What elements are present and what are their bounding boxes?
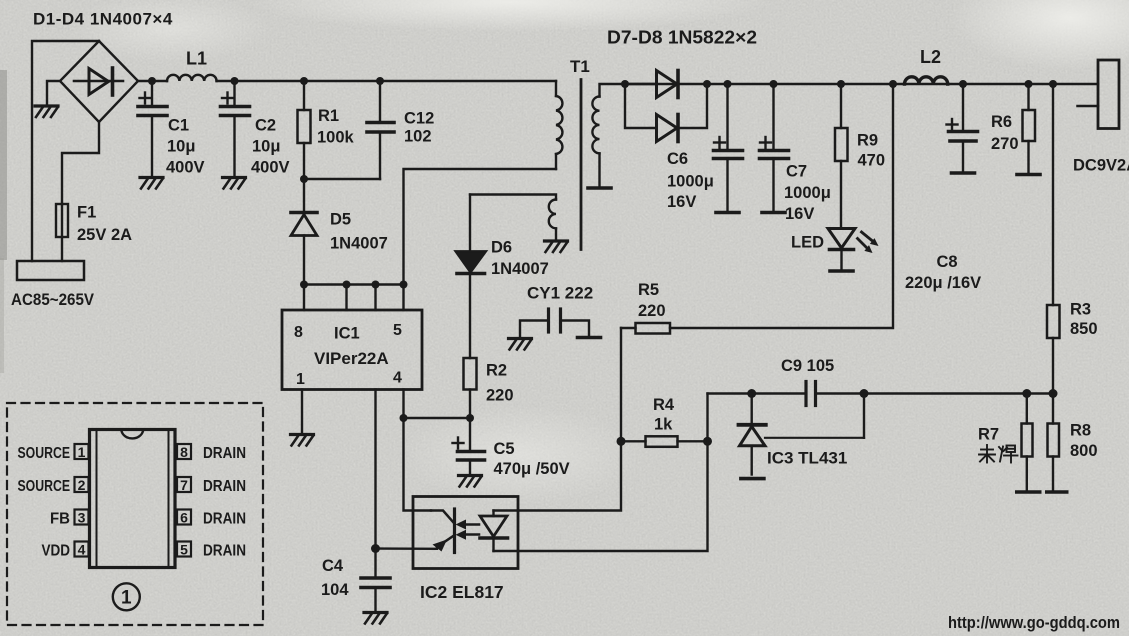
resistor R3 xyxy=(1047,305,1060,394)
node D7/D8 cathodes xyxy=(703,80,711,88)
label C4 104 xyxy=(321,557,349,599)
AC input plug xyxy=(17,261,84,280)
svg-text:C2: C2 xyxy=(255,117,276,135)
svg-text:400V: 400V xyxy=(166,159,205,177)
node drain row pin7 xyxy=(343,281,351,311)
wire IC1 pin1 to ground xyxy=(301,390,303,433)
label R4 1k xyxy=(653,396,675,434)
svg-text:1k: 1k xyxy=(654,416,673,434)
diode D8 xyxy=(625,84,707,142)
node FB/C4/opto emitter xyxy=(371,544,437,553)
svg-text:1N4007: 1N4007 xyxy=(491,260,549,278)
opto-coupler IC2 EL817 box xyxy=(413,497,518,569)
svg-text:C9 105: C9 105 xyxy=(781,357,834,375)
pinout pin 2 box xyxy=(75,477,89,493)
LED return bar xyxy=(830,270,853,272)
capacitor CY1 xyxy=(520,309,589,337)
R6 return bar xyxy=(1017,173,1040,175)
node R3 top xyxy=(1049,80,1057,88)
IC3 anode return bar xyxy=(741,477,764,479)
wire drain node row xyxy=(304,283,404,285)
svg-text:CY1 222: CY1 222 xyxy=(527,284,593,303)
fuse F1 xyxy=(56,204,68,261)
inductor L2 xyxy=(905,77,948,84)
svg-text:7: 7 xyxy=(180,477,188,493)
resistor R5 xyxy=(621,323,670,334)
R8 return bar xyxy=(1045,490,1069,494)
svg-text:DRAIN: DRAIN xyxy=(203,510,246,527)
svg-text:SOURCE: SOURCE xyxy=(18,478,71,495)
transformer T1 core xyxy=(580,80,583,250)
diode D7 xyxy=(625,71,678,98)
CY1 right return bar xyxy=(578,336,601,338)
opto IC2 led xyxy=(480,511,508,552)
C6 return bar xyxy=(716,211,739,213)
pinout inset dashed box xyxy=(7,403,263,625)
svg-text:25V 2A: 25V 2A xyxy=(77,226,132,244)
node C12 top xyxy=(376,77,384,85)
wire L1 to R1/C12 rail xyxy=(217,80,557,82)
resistor R6 xyxy=(1023,84,1036,174)
secondary return bar xyxy=(588,187,611,189)
wire R4 node up to IC3 row xyxy=(706,394,708,442)
transformer T1 aux winding xyxy=(470,195,556,240)
svg-text:AC85~265V: AC85~265V xyxy=(11,290,95,309)
opto IC2 light arrows xyxy=(456,520,480,540)
node R7 top xyxy=(1022,389,1031,398)
resistor R9 xyxy=(835,84,848,228)
svg-text:1N4007: 1N4007 xyxy=(330,235,388,253)
label R9 470 xyxy=(857,132,885,170)
pinout pin 3 box xyxy=(75,509,89,525)
svg-text:1: 1 xyxy=(78,444,86,460)
node C2 xyxy=(231,77,239,85)
svg-text:10μ: 10μ xyxy=(252,138,280,156)
svg-text:1: 1 xyxy=(296,371,305,388)
wire opto led cathode inside xyxy=(494,550,519,552)
svg-text:102: 102 xyxy=(404,128,432,146)
capacitor C4 xyxy=(361,549,390,611)
resistor R4 xyxy=(621,436,708,447)
svg-text:C7: C7 xyxy=(786,163,807,181)
svg-text:R8: R8 xyxy=(1070,422,1091,440)
svg-text:F1: F1 xyxy=(77,204,96,222)
label C6 1000u 16V xyxy=(667,150,714,211)
svg-text:R4: R4 xyxy=(653,396,675,414)
svg-text:1000μ: 1000μ xyxy=(667,173,714,191)
node R9 top xyxy=(837,80,845,88)
svg-text:220: 220 xyxy=(486,387,514,405)
svg-text:C4: C4 xyxy=(322,557,344,575)
wire R5 left down to opto anode xyxy=(518,328,621,511)
resistor R8 xyxy=(1048,394,1060,492)
svg-text:3: 3 xyxy=(78,509,86,525)
svg-text:4: 4 xyxy=(393,370,402,387)
svg-text:D1-D4 1N4007×4: D1-D4 1N4007×4 xyxy=(33,10,173,29)
pinout IC body xyxy=(90,430,176,568)
node pin4/R2 wire xyxy=(400,414,471,422)
node R6 top xyxy=(1025,80,1033,88)
svg-text:100k: 100k xyxy=(317,129,355,147)
ground IC1 pin1 xyxy=(291,435,314,446)
svg-text:T1: T1 xyxy=(570,57,590,76)
ground C1 xyxy=(140,178,163,189)
svg-text:D6: D6 xyxy=(491,239,512,257)
R7 return bar xyxy=(1015,490,1042,494)
node C1 xyxy=(148,77,156,85)
label C7 1000u 16V xyxy=(784,163,831,224)
svg-text:8: 8 xyxy=(294,324,303,341)
ground (primary, at bridge) xyxy=(35,106,58,117)
pinout pin 8 box xyxy=(177,444,191,460)
ground C2 xyxy=(223,178,246,189)
circled figure number 1 xyxy=(113,583,140,610)
capacitor C8 xyxy=(947,84,978,172)
label R3 850 xyxy=(1070,301,1098,339)
svg-text:DRAIN: DRAIN xyxy=(203,445,246,462)
svg-text:470: 470 xyxy=(858,152,886,170)
label D5 1N4007 xyxy=(330,211,388,253)
svg-text:R5: R5 xyxy=(638,281,659,299)
capacitor C5 xyxy=(453,418,485,474)
pinout pin 6 box xyxy=(177,509,191,525)
svg-text:C6: C6 xyxy=(667,150,688,168)
node C7 top xyxy=(770,80,778,88)
svg-text:220μ /16V: 220μ /16V xyxy=(905,274,981,292)
svg-text:1000μ: 1000μ xyxy=(784,184,831,202)
label C1 10u 400V xyxy=(166,117,205,177)
svg-text:R2: R2 xyxy=(486,362,507,380)
label D6 1N4007 xyxy=(491,239,549,279)
resistor R1 xyxy=(298,81,311,179)
resistor R7 xyxy=(1022,394,1033,492)
wire R4 right down to opto cathode xyxy=(518,441,708,551)
svg-text:L2: L2 xyxy=(920,47,941,67)
label R5 220 xyxy=(638,281,666,320)
svg-text:5: 5 xyxy=(393,322,402,339)
C7 return bar xyxy=(762,211,785,213)
pinout pin 7 box xyxy=(177,477,191,493)
wire secondary rail xyxy=(625,83,1098,85)
node R1/C12/D5 xyxy=(300,175,308,183)
label R8 800 xyxy=(1070,422,1098,461)
node drain row pin8 xyxy=(300,281,308,311)
svg-text:LED: LED xyxy=(791,234,824,252)
svg-text:D5: D5 xyxy=(330,211,351,229)
capacitor C12 xyxy=(367,81,394,179)
svg-text:270: 270 xyxy=(991,135,1019,153)
svg-text:R9: R9 xyxy=(857,132,878,150)
label weihan (not soldered) xyxy=(979,445,1018,463)
svg-text:VDD: VDD xyxy=(42,542,71,559)
ground CY1 left xyxy=(509,339,532,350)
svg-text:2: 2 xyxy=(78,477,86,493)
svg-text:IC1: IC1 xyxy=(334,325,360,343)
svg-text:DC9V2A: DC9V2A xyxy=(1073,157,1129,175)
bridge rectifier D1-D4 xyxy=(60,41,138,122)
opto IC2 phototransistor xyxy=(431,509,455,553)
ground C4 xyxy=(364,613,387,624)
svg-text:C5: C5 xyxy=(494,440,515,458)
LED indicator xyxy=(828,229,879,271)
wire feedback tap down to R5 xyxy=(670,84,893,328)
transformer T1 secondary winding xyxy=(592,84,625,187)
svg-text:C8: C8 xyxy=(937,253,958,271)
svg-text:104: 104 xyxy=(321,581,349,599)
DC output connector xyxy=(1078,60,1120,129)
svg-text:1: 1 xyxy=(121,588,132,609)
svg-text:16V: 16V xyxy=(667,193,696,211)
svg-text:220: 220 xyxy=(638,302,666,320)
ground aux winding xyxy=(545,241,568,252)
wire bridge output to L1 xyxy=(138,80,167,82)
svg-text:IC2 EL817: IC2 EL817 xyxy=(420,582,504,602)
node C9 right xyxy=(860,389,869,398)
node secondary top xyxy=(621,80,629,88)
transformer T1 primary winding xyxy=(556,81,562,169)
svg-text:5: 5 xyxy=(180,541,188,557)
diode D5 xyxy=(291,179,317,285)
wire IC1 pin4 to node xyxy=(402,390,404,419)
svg-text:R6: R6 xyxy=(991,113,1012,131)
label C12 102 xyxy=(404,110,434,146)
node feedback tap xyxy=(889,80,897,88)
label R6 270 xyxy=(991,113,1019,153)
node C6 top xyxy=(724,80,732,88)
wire C9 right to divider xyxy=(816,392,1054,394)
svg-text:4: 4 xyxy=(78,541,86,557)
wire bridge bottom to fuse xyxy=(62,122,99,204)
node R1 top xyxy=(300,77,308,85)
svg-text:VIPer22A: VIPer22A xyxy=(314,349,389,368)
wire pin4 node down to opto collector xyxy=(404,418,432,511)
svg-text:DRAIN: DRAIN xyxy=(203,542,246,559)
pinout pin 5 box xyxy=(177,541,191,557)
wire R3 top xyxy=(1052,84,1054,305)
label C5 470u/50V xyxy=(494,440,570,478)
svg-text:D7-D8 1N5822×2: D7-D8 1N5822×2 xyxy=(607,28,757,48)
svg-text:C12: C12 xyxy=(404,110,434,128)
wire primary return to drain row xyxy=(404,169,557,285)
label R2 220 xyxy=(486,362,514,405)
wire opto led anode inside xyxy=(494,509,519,511)
node R4 left xyxy=(617,437,626,446)
diode D6 xyxy=(456,195,486,359)
svg-text:400V: 400V xyxy=(251,159,290,177)
capacitor C2 xyxy=(221,81,250,176)
svg-text:16V: 16V xyxy=(785,205,814,223)
node IC3 top xyxy=(747,389,756,398)
pinout pin 1 box xyxy=(75,444,89,460)
label R1 100k xyxy=(317,107,355,147)
label C2 10u 400V xyxy=(251,117,290,177)
capacitor C1 xyxy=(138,81,167,176)
svg-text:R1: R1 xyxy=(318,107,339,125)
node C8 top xyxy=(959,80,967,88)
svg-text:http://www.go-gddq.com: http://www.go-gddq.com xyxy=(948,614,1120,632)
capacitor C9 xyxy=(806,382,816,406)
ground C5 xyxy=(459,476,482,487)
op-amp U1 IC1 VIPer22A box xyxy=(282,310,422,390)
node R4 right xyxy=(703,437,712,446)
pinout pin 4 box xyxy=(75,541,89,557)
svg-text:850: 850 xyxy=(1070,320,1098,338)
wire IC3 row horizontal xyxy=(708,392,807,394)
svg-text:R7: R7 xyxy=(978,426,999,444)
svg-text:SOURCE: SOURCE xyxy=(18,445,71,462)
node R8 top xyxy=(1049,389,1058,398)
wire C9 node to TL431 ref xyxy=(863,394,865,438)
svg-text:DRAIN: DRAIN xyxy=(203,478,246,495)
svg-text:10μ: 10μ xyxy=(167,138,195,156)
svg-text:R3: R3 xyxy=(1070,301,1091,319)
wire AC line to bridge top xyxy=(32,41,99,261)
node drain row pin6 xyxy=(372,281,380,311)
svg-text:FB: FB xyxy=(50,510,70,527)
resistor R2 xyxy=(464,358,477,418)
svg-text:L1: L1 xyxy=(186,49,207,69)
capacitor C7 xyxy=(760,84,789,212)
wire C12 bottom to R1 bottom xyxy=(304,178,380,180)
inductor L1 xyxy=(167,75,217,81)
wire IC1 FB pin down xyxy=(374,390,376,549)
svg-text:800: 800 xyxy=(1070,442,1098,460)
C8 return bar xyxy=(952,172,975,174)
svg-text:6: 6 xyxy=(180,509,188,525)
wire bridge left corner to ground xyxy=(47,81,60,104)
node R2/C5 xyxy=(466,414,474,422)
svg-text:C1: C1 xyxy=(168,117,189,135)
node drain row pin5 xyxy=(400,281,408,311)
svg-text:470μ /50V: 470μ /50V xyxy=(494,460,570,478)
svg-text:IC3 TL431: IC3 TL431 xyxy=(767,449,847,468)
label C8 220u/16V xyxy=(905,253,981,292)
shunt regulator IC3 TL431 xyxy=(739,394,865,475)
svg-text:8: 8 xyxy=(180,444,188,460)
capacitor C6 xyxy=(714,84,743,212)
